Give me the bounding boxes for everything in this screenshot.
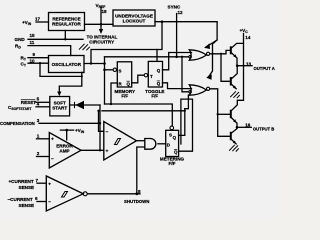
svg-text:15: 15	[30, 33, 36, 38]
svg-text:SHUTDOWN: SHUTDOWN	[124, 199, 149, 204]
svg-text:OSCILLATOR: OSCILLATOR	[52, 62, 82, 67]
svg-text:−: −	[51, 158, 54, 163]
svg-text:1: 1	[37, 134, 40, 139]
svg-text:CIRCUITRY: CIRCUITRY	[89, 40, 114, 45]
svg-text:10: 10	[30, 59, 36, 64]
svg-text:8: 8	[138, 189, 141, 194]
svg-text:SYNC: SYNC	[168, 5, 181, 10]
svg-text:SOFT: SOFT	[54, 100, 66, 105]
svg-text:13: 13	[246, 61, 252, 66]
svg-text:Q: Q	[127, 81, 131, 86]
svg-text:Q: Q	[157, 68, 161, 73]
svg-text:Q: Q	[174, 150, 178, 155]
svg-text:+: +	[51, 138, 54, 143]
svg-text:6: 6	[35, 196, 38, 201]
svg-text:16: 16	[245, 122, 251, 127]
svg-text:3: 3	[37, 118, 40, 123]
svg-text:18: 18	[102, 9, 108, 14]
svg-text:RESET: RESET	[21, 100, 37, 105]
svg-text:11: 11	[30, 40, 35, 45]
svg-text:S: S	[169, 132, 172, 137]
svg-text:D: D	[167, 142, 170, 147]
svg-text:2: 2	[37, 151, 40, 156]
svg-text:REFERENCE: REFERENCE	[52, 16, 80, 21]
svg-text:START: START	[52, 106, 67, 111]
svg-text:T: T	[150, 74, 153, 79]
svg-text:17: 17	[35, 17, 41, 22]
svg-text:Q: Q	[157, 81, 161, 86]
svg-text:SENSE: SENSE	[19, 185, 35, 190]
svg-text:−CURRENT: −CURRENT	[8, 197, 33, 202]
svg-text:9: 9	[33, 52, 36, 57]
svg-text:REGULATOR: REGULATOR	[52, 22, 81, 27]
svg-text:OUTPUT A: OUTPUT A	[254, 66, 275, 71]
svg-text:F/F: F/F	[121, 94, 128, 99]
svg-text:Q: Q	[173, 135, 177, 140]
svg-text:AMP: AMP	[59, 149, 69, 154]
svg-text:−: −	[106, 130, 109, 135]
svg-text:+: +	[106, 149, 109, 154]
svg-text:OUTPUT B: OUTPUT B	[253, 126, 274, 131]
svg-text:12: 12	[178, 10, 184, 15]
svg-text:COMPENSATION: COMPENSATION	[0, 121, 35, 126]
svg-text:−: −	[48, 201, 51, 206]
svg-text:GND: GND	[15, 37, 26, 42]
svg-text:7: 7	[36, 178, 39, 183]
svg-text:F/F: F/F	[169, 161, 176, 166]
svg-text:+CURRENT: +CURRENT	[9, 179, 34, 184]
svg-text:S: S	[119, 68, 122, 73]
svg-text:4: 4	[37, 102, 40, 107]
svg-text:UNDERVOLTAGE: UNDERVOLTAGE	[115, 13, 153, 18]
svg-text:LOCKOUT: LOCKOUT	[123, 19, 146, 24]
svg-text:SENSE: SENSE	[19, 203, 35, 208]
svg-text:+: +	[48, 182, 51, 187]
svg-text:14: 14	[245, 35, 251, 40]
svg-text:F/F: F/F	[151, 94, 158, 99]
